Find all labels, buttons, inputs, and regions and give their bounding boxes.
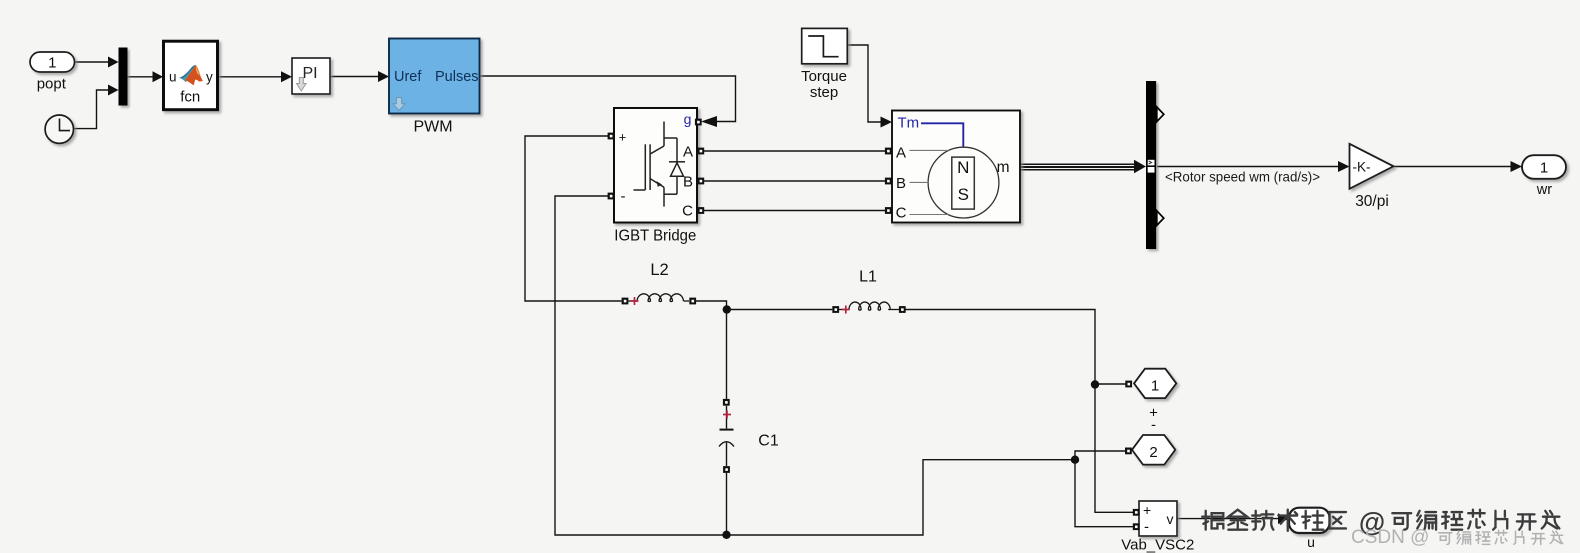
svg-text:<Rotor speed wm (rad/s)>: <Rotor speed wm (rad/s)>: [1165, 170, 1320, 185]
svg-text:u: u: [169, 70, 177, 85]
svg-text:IGBT Bridge: IGBT Bridge: [614, 228, 696, 245]
svg-text:S: S: [958, 185, 969, 204]
svg-text:Torque: Torque: [801, 68, 847, 85]
svg-text:C1: C1: [758, 433, 779, 450]
svg-text:CSDN @: CSDN @: [1351, 527, 1429, 548]
svg-text:m: m: [997, 159, 1010, 176]
svg-text:step: step: [810, 84, 838, 101]
svg-text:Uref: Uref: [394, 69, 422, 85]
svg-text:C: C: [896, 205, 907, 222]
svg-text:-: -: [621, 188, 626, 205]
svg-text:B: B: [683, 174, 693, 191]
svg-text:Tm: Tm: [898, 115, 920, 132]
svg-text:g: g: [684, 111, 692, 127]
svg-text:y: y: [206, 70, 213, 85]
svg-text:v: v: [1167, 511, 1174, 527]
svg-text:Pulses: Pulses: [435, 69, 479, 85]
svg-text:u: u: [1307, 534, 1315, 550]
svg-text:B: B: [896, 175, 906, 192]
svg-text:fcn: fcn: [180, 89, 200, 106]
svg-text:PI: PI: [302, 65, 317, 82]
svg-text:N: N: [957, 158, 969, 177]
svg-text:-K-: -K-: [1353, 160, 1371, 175]
svg-text:1: 1: [1151, 378, 1159, 395]
svg-text:-: -: [1151, 417, 1156, 434]
svg-text:C: C: [682, 203, 693, 220]
svg-text:+: +: [1143, 502, 1151, 518]
svg-text:L1: L1: [859, 269, 877, 286]
svg-text:1: 1: [1540, 160, 1548, 177]
svg-text:1: 1: [48, 55, 56, 72]
svg-text:popt: popt: [37, 76, 67, 93]
svg-text:2: 2: [1149, 444, 1157, 461]
svg-text:PWM: PWM: [413, 119, 452, 136]
svg-text:Vab_VSC2: Vab_VSC2: [1121, 537, 1194, 553]
svg-text:A: A: [683, 144, 693, 161]
svg-text:A: A: [896, 145, 906, 162]
svg-text:-: -: [1144, 519, 1149, 536]
svg-text:L2: L2: [650, 261, 668, 279]
svg-text:+: +: [619, 130, 627, 145]
svg-text:wr: wr: [1536, 182, 1552, 198]
svg-text:30/pi: 30/pi: [1355, 193, 1389, 210]
